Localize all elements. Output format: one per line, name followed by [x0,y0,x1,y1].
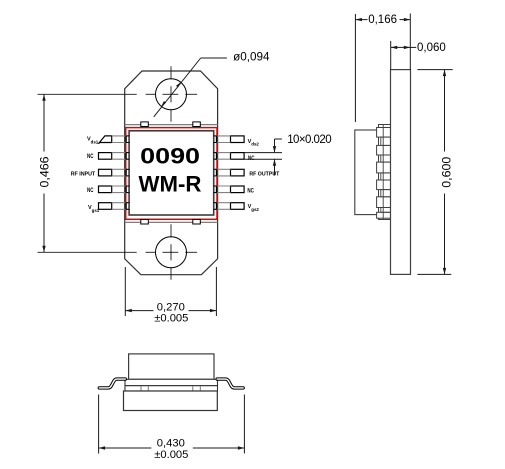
svg-text:RF OUTPUT: RF OUTPUT [249,172,279,178]
svg-text:NC: NC [87,187,94,194]
svg-text:NC: NC [87,153,94,160]
svg-text:±0.005: ±0.005 [154,313,188,325]
svg-text:0,430: 0,430 [157,437,185,449]
svg-text:WM-R: WM-R [139,172,202,197]
svg-text:0,600: 0,600 [440,157,454,188]
svg-text:0090: 0090 [140,144,200,169]
svg-text:ø0,094: ø0,094 [233,51,270,64]
svg-text:0,166: 0,166 [368,14,397,26]
svg-text:NC: NC [247,187,254,194]
svg-text:0,060: 0,060 [417,42,446,54]
svg-text:±0.005: ±0.005 [154,449,188,461]
svg-text:10×0.020: 10×0.020 [287,134,331,146]
svg-text:0,270: 0,270 [157,301,185,313]
svg-text:RF INPUT: RF INPUT [71,172,96,178]
svg-text:0,466: 0,466 [37,156,51,187]
